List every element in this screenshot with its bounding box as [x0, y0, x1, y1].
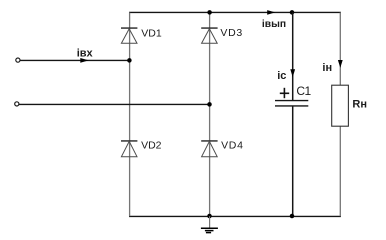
svg-text:VD1: VD1: [141, 28, 162, 40]
svg-text:Rн: Rн: [352, 99, 367, 111]
wire left bridge column: [129, 12, 131, 216]
wire top rail (+ output): [129, 11, 341, 13]
node ground junction on bottom rail: [207, 214, 212, 219]
current arrow ic: [290, 69, 295, 77]
svg-text:iс: iс: [277, 70, 286, 82]
node C1 top / top rail junction: [290, 10, 295, 15]
svg-text:C1: C1: [296, 84, 311, 98]
wire right bridge column: [209, 12, 211, 216]
wire input 1: [20, 59, 130, 61]
terminal input 2: [15, 102, 19, 106]
wire C1 top branch: [292, 12, 294, 100]
wire load branch lower: [339, 126, 341, 216]
wire input 2: [19, 103, 210, 105]
resistor Rn: [332, 85, 349, 126]
ground: [201, 216, 218, 232]
node C1 bottom / bottom rail junction: [290, 214, 295, 219]
wire bottom rail: [129, 215, 341, 217]
terminal input 1: [16, 58, 20, 62]
svg-text:VD4: VD4: [221, 139, 244, 151]
wire C1 bottom branch: [292, 106, 294, 216]
diode VD2: [121, 141, 137, 157]
current arrow ivx: [80, 58, 88, 63]
capacitor C1 plus polarity mark: [280, 88, 289, 98]
wire load branch upper: [339, 12, 341, 85]
svg-text:VD3: VD3: [220, 27, 243, 39]
node input1-bridge junction: [127, 58, 132, 63]
diode VD4: [201, 141, 217, 157]
node input2-bridge junction: [207, 102, 212, 107]
current arrow ivyp: [267, 10, 275, 15]
diode VD3: [201, 28, 217, 43]
node VD3 cathode / top rail junction: [207, 10, 212, 15]
svg-text:VD2: VD2: [141, 139, 162, 151]
current arrow in: [338, 60, 343, 68]
svg-text:iвх: iвх: [77, 48, 94, 60]
svg-text:iвып: iвып: [262, 19, 286, 30]
capacitor C1: [275, 101, 308, 106]
diode VD1: [121, 28, 137, 43]
svg-text:iн: iн: [322, 62, 332, 74]
